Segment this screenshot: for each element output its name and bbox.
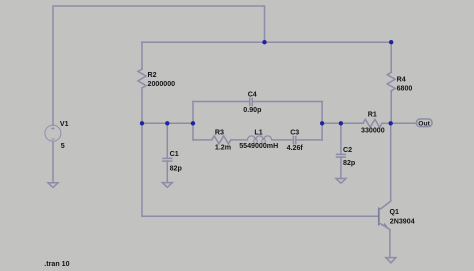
wire loop top branch left of C4	[193, 101, 250, 103]
wire V1 bottom lead	[52, 141, 54, 183]
capacitor C1	[163, 158, 172, 161]
V1 plus mark	[51, 127, 54, 130]
svg-text:.tran 10: .tran 10	[44, 260, 69, 268]
V1 minus mark	[51, 138, 54, 140]
wire C1 top lead	[166, 123, 168, 158]
wire R4 column top lead	[390, 42, 392, 72]
svg-text:330000: 330000	[361, 127, 385, 135]
wire node row right to R1	[322, 122, 363, 124]
capacitor C4	[250, 98, 253, 105]
wire node row left	[142, 122, 193, 124]
resistor R4	[387, 72, 395, 91]
svg-text:Out: Out	[418, 120, 430, 127]
ground V1	[48, 183, 58, 188]
junction top rail at V1 feed	[262, 40, 266, 44]
wire R4 bottom lead	[390, 91, 392, 124]
svg-text:Q1: Q1	[390, 208, 400, 216]
wire C2 top lead	[340, 123, 342, 154]
resistor R3	[212, 136, 231, 144]
svg-text:82p: 82p	[343, 159, 356, 167]
inductor L1	[247, 136, 271, 140]
transistor Q1 emitter arrow	[383, 223, 388, 227]
wire feedback left column	[141, 123, 143, 216]
ground C2	[336, 179, 346, 184]
svg-text:0.90p: 0.90p	[243, 106, 262, 114]
junction node row at loop left	[191, 121, 195, 125]
transistor Q1 collector diagonal	[379, 201, 391, 210]
wire R3 to L1	[231, 139, 248, 141]
wire R2 bottom lead	[141, 88, 143, 123]
svg-text:5: 5	[61, 142, 65, 150]
svg-text:C4: C4	[248, 90, 257, 98]
svg-text:R4: R4	[397, 75, 406, 83]
junction node row at loop right	[320, 121, 324, 125]
resistor R1	[363, 119, 382, 127]
wire loop left edge	[192, 102, 194, 140]
svg-text:C3: C3	[290, 128, 299, 136]
wire Q1 emitter down	[389, 231, 391, 258]
wire loop bottom branch left lead	[193, 139, 212, 141]
wire C1 bottom lead	[166, 161, 168, 183]
transistor Q1 base bar	[378, 208, 380, 224]
svg-text:R1: R1	[368, 111, 377, 119]
svg-text:4.26f: 4.26f	[287, 144, 304, 152]
svg-text:V1: V1	[60, 120, 69, 128]
capacitor C3	[293, 137, 295, 144]
wire node to Out flag	[391, 122, 417, 124]
wire C3 to loop right edge	[296, 139, 322, 141]
svg-text:C1: C1	[170, 150, 179, 158]
wire loop top branch right of C4	[252, 101, 322, 103]
junction node row at C1	[165, 121, 169, 125]
wire L1 to C3	[272, 139, 294, 141]
wire R1 to node	[382, 122, 391, 124]
wire feedback bottom to base	[142, 215, 379, 217]
junction node at R1 R4 Out	[389, 121, 393, 125]
svg-text:5549000mH: 5549000mH	[239, 142, 278, 150]
svg-text:R2: R2	[148, 71, 157, 79]
capacitor C2	[337, 154, 346, 157]
junction node row at R2	[140, 121, 144, 125]
svg-text:L1: L1	[254, 128, 262, 136]
wire node to Q1 collector	[390, 123, 392, 201]
junction top rail at R4	[389, 40, 393, 44]
ground C1	[162, 183, 172, 188]
wire top rail	[142, 41, 391, 43]
svg-text:1.2m: 1.2m	[215, 144, 231, 152]
wire V1 top to rail	[53, 6, 265, 125]
wire R2 column top lead	[141, 42, 143, 69]
wire C2 bottom lead	[340, 157, 342, 178]
svg-text:C2: C2	[343, 146, 352, 154]
resistor R2	[138, 69, 146, 88]
wire loop right edge	[321, 102, 323, 140]
transistor Q1 emitter diagonal	[379, 223, 390, 231]
svg-text:6800: 6800	[397, 84, 413, 92]
voltage source V1 circle	[45, 125, 61, 141]
svg-text:2N3904: 2N3904	[390, 217, 415, 225]
ground Q1	[386, 258, 396, 263]
svg-text:2000000: 2000000	[148, 80, 176, 88]
output flag Out	[417, 119, 433, 127]
svg-text:82p: 82p	[170, 164, 183, 172]
svg-text:R3: R3	[215, 128, 224, 136]
junction node row at C2	[339, 121, 343, 125]
